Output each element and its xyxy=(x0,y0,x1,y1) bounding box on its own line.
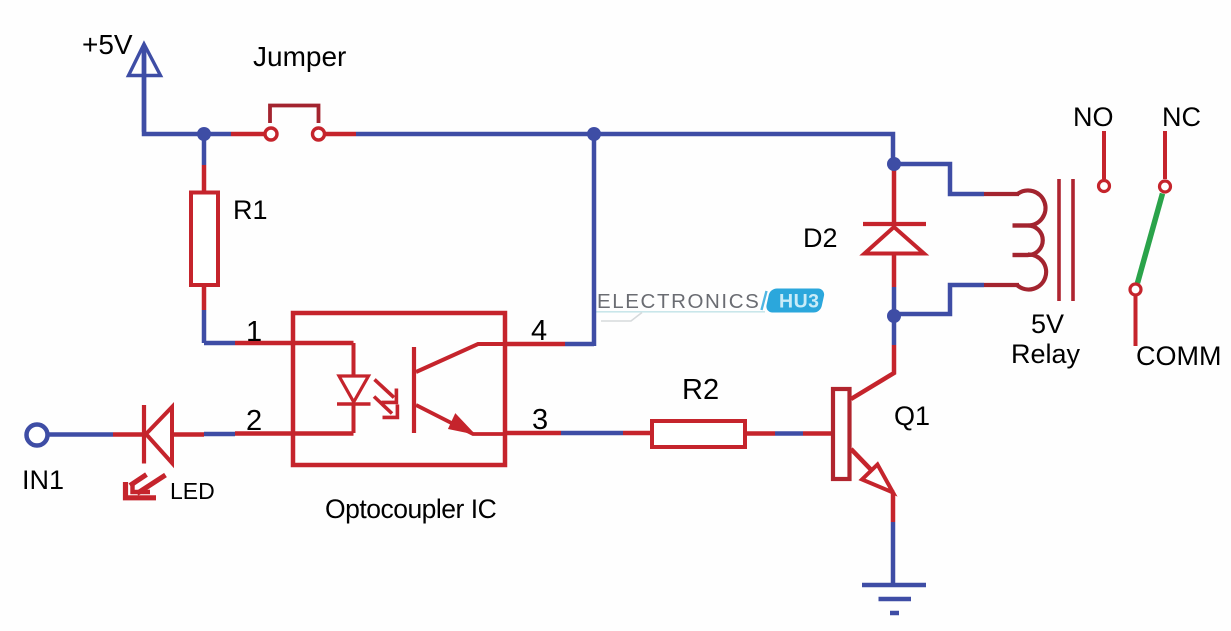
power +5V arrow symbol xyxy=(129,44,161,132)
wire Q1 collector to node B xyxy=(892,316,897,345)
wire D2 to node B xyxy=(892,254,897,316)
svg-text:1: 1 xyxy=(246,316,262,348)
svg-text:Jumper: Jumper xyxy=(253,41,346,72)
svg-text:+5V: +5V xyxy=(82,29,133,60)
wire stub to jumper (red) xyxy=(231,132,265,137)
node A junction dot xyxy=(197,127,211,141)
svg-text:4: 4 xyxy=(531,315,547,347)
switch blade (green) xyxy=(1138,194,1163,284)
wire Q1 emitter to ground xyxy=(891,522,896,583)
wire LED to pin2 xyxy=(172,434,354,435)
ground xyxy=(862,585,926,613)
phototransistor inside optocoupler xyxy=(414,344,505,434)
wire R1 to pin1 xyxy=(204,285,354,343)
light arrows inside optocoupler xyxy=(374,380,397,418)
svg-text:Optocoupler IC: Optocoupler IC xyxy=(325,494,497,524)
wire node B to relay bottom (blue) xyxy=(894,285,984,314)
contact NO xyxy=(1099,131,1110,192)
svg-text:Relay: Relay xyxy=(1011,339,1081,369)
svg-text:NO: NO xyxy=(1073,102,1114,132)
svg-text:3: 3 xyxy=(532,404,548,436)
LED emission arrows xyxy=(126,475,166,498)
contact COMM xyxy=(1130,284,1141,346)
wire IN1 to LED xyxy=(48,432,144,437)
diode D2 xyxy=(863,224,926,254)
node C junction dot xyxy=(887,157,901,171)
svg-text:2: 2 xyxy=(246,405,262,437)
relay coil K1 xyxy=(984,191,1046,290)
wire stub after jumper (red) xyxy=(325,132,357,137)
wire node C to relay top (blue) xyxy=(894,164,984,194)
diode D1 LED xyxy=(144,405,172,464)
node D junction dot xyxy=(587,127,601,141)
svg-text:D2: D2 xyxy=(803,223,838,253)
wire node C to D2 xyxy=(892,166,897,222)
svg-text:ELECTRONICS: ELECTRONICS xyxy=(597,290,760,313)
internal LED of optocoupler xyxy=(337,343,371,433)
input terminal IN1 xyxy=(27,425,48,446)
relay core bars xyxy=(1059,179,1073,301)
svg-text:NC: NC xyxy=(1162,102,1201,132)
watermark electronics hub logo xyxy=(595,288,824,321)
wire pin4 to top rail xyxy=(505,134,594,346)
svg-text:5V: 5V xyxy=(1031,309,1064,339)
label 5V Relay xyxy=(1011,309,1081,369)
node B junction dot xyxy=(887,309,901,323)
wire top rail left (blue) xyxy=(142,45,231,134)
contact NC xyxy=(1160,131,1171,192)
transistor Q1 xyxy=(833,345,894,522)
wire from node A down to R1 xyxy=(202,134,207,165)
svg-text:COMM: COMM xyxy=(1136,341,1221,371)
svg-text:LED: LED xyxy=(170,478,215,504)
wire pin3 to R2 xyxy=(505,431,653,436)
wire top rail middle (blue) xyxy=(356,134,893,162)
svg-text:R1: R1 xyxy=(233,195,268,225)
svg-text:R2: R2 xyxy=(682,374,719,406)
jumper J1 xyxy=(265,106,325,141)
svg-text:HU3: HU3 xyxy=(779,291,820,313)
wire R2 to Q1 base xyxy=(745,431,833,436)
resistor R2 xyxy=(652,421,745,447)
svg-text:IN1: IN1 xyxy=(22,465,64,495)
svg-text:Q1: Q1 xyxy=(894,401,930,431)
optocoupler U1 box xyxy=(293,313,505,465)
resistor R1 xyxy=(191,193,218,286)
